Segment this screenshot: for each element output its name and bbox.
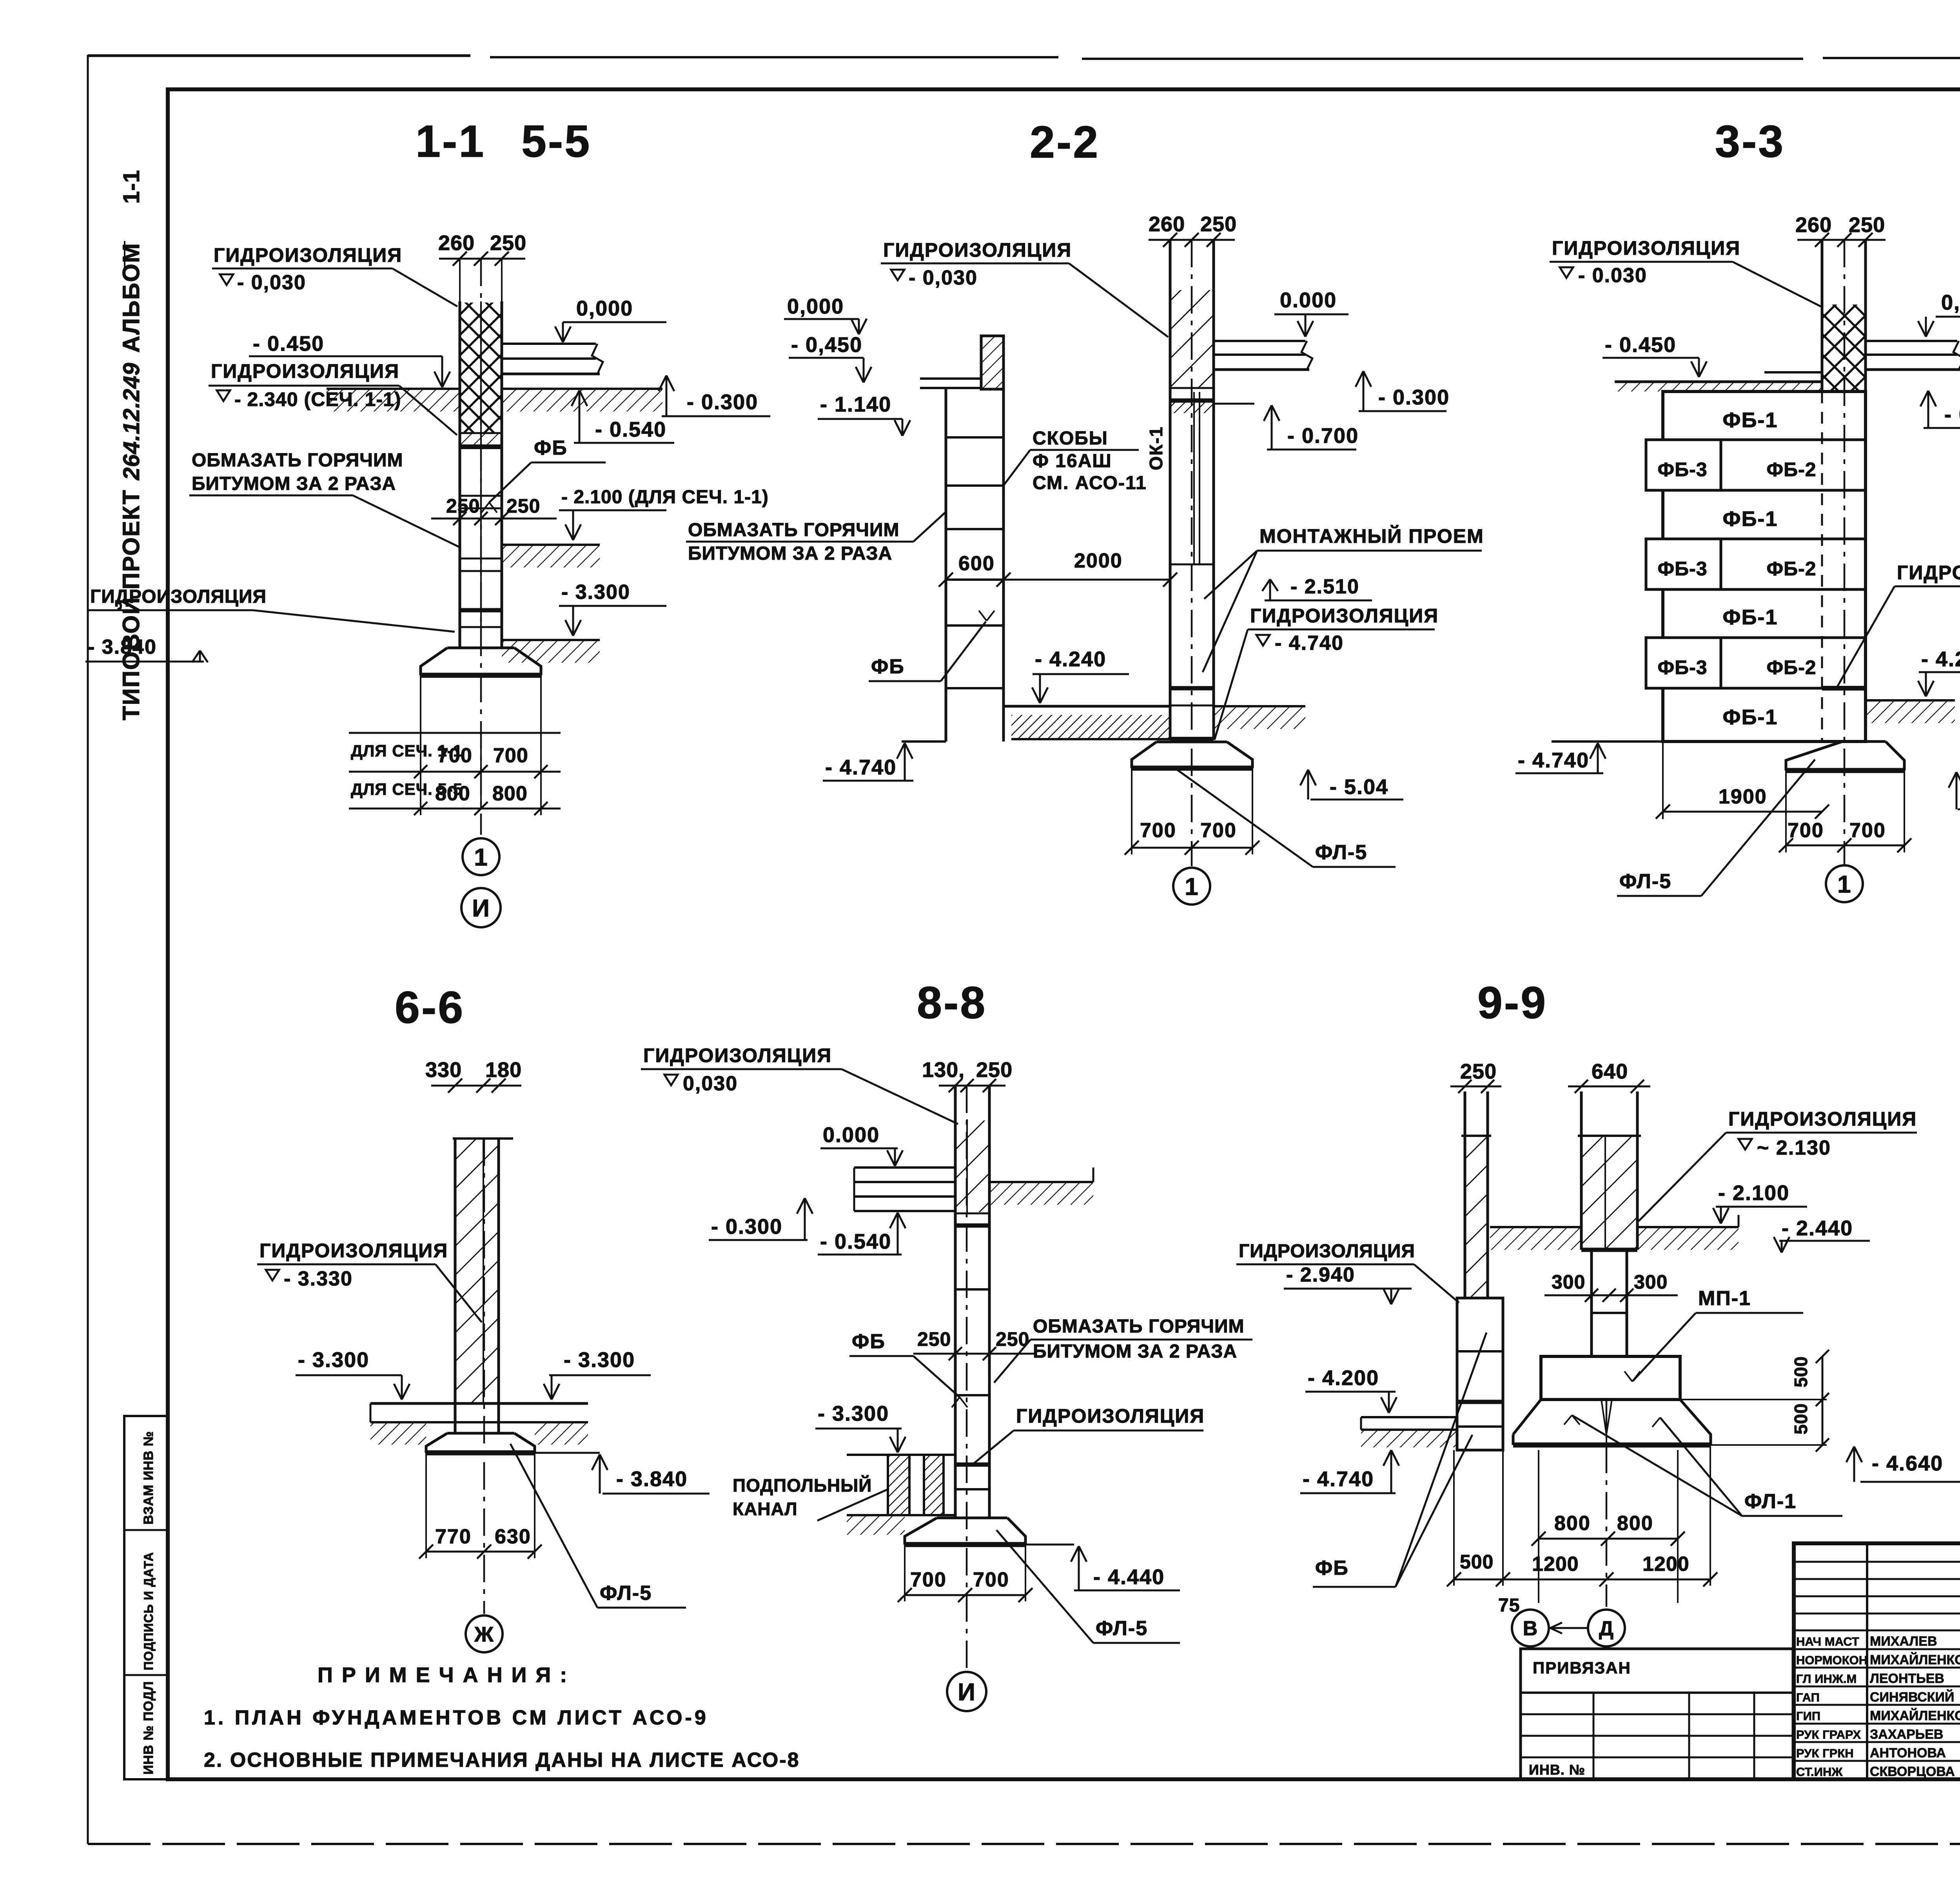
svg-text:ОБМАЗАТЬ ГОРЯЧИМ: ОБМАЗАТЬ ГОРЯЧИМ <box>688 520 899 540</box>
svg-text:ГИДРОИЗОЛЯЦИЯ: ГИДРОИЗОЛЯЦИЯ <box>214 244 402 266</box>
svg-text:- 0.300: - 0.300 <box>1378 386 1450 409</box>
svg-text:700: 700 <box>973 1568 1009 1591</box>
svg-text:ГИДРОИЗОЛЯЦИЯ: ГИДРОИЗОЛЯЦИЯ <box>1728 1108 1917 1130</box>
svg-text:- 4.200: - 4.200 <box>1921 647 1960 671</box>
svg-text:ФБ: ФБ <box>534 437 568 459</box>
svg-text:1: 1 <box>474 844 488 871</box>
axis circle И S1 <box>461 888 501 927</box>
svg-text:3-3: 3-3 <box>1715 116 1785 167</box>
svg-text:ФБ-3: ФБ-3 <box>1657 656 1707 678</box>
svg-text:260: 260 <box>1795 213 1832 237</box>
footing FL-5 S3 <box>1842 740 1886 743</box>
svg-text:- 3.840: - 3.840 <box>616 1467 688 1491</box>
svg-text:- 2.510: - 2.510 <box>1290 575 1359 598</box>
svg-text:75: 75 <box>1498 1595 1520 1616</box>
left block column S9 <box>1457 1298 1503 1450</box>
floor slab right S1 <box>502 343 596 345</box>
axis circle И S8 <box>947 1672 986 1711</box>
svg-text:- 0,030: - 0,030 <box>237 271 306 294</box>
footing FL-5 S8 <box>937 1517 1007 1519</box>
svg-text:8-8: 8-8 <box>917 978 987 1028</box>
footing FL-5 S2 <box>1170 737 1214 742</box>
svg-text:- 4.640: - 4.640 <box>1872 1452 1943 1475</box>
wall joints S1 <box>460 432 502 434</box>
svg-text:П Р И М Е Ч А Н И Я :: П Р И М Е Ч А Н И Я : <box>318 1663 568 1687</box>
svg-text:АЛЬБОМ: АЛЬБОМ <box>118 243 144 353</box>
svg-text:ЗАХАРЬЕВ: ЗАХАРЬЕВ <box>1870 1727 1943 1742</box>
svg-text:2. ОСНОВНЫЕ ПРИМЕЧАНИЯ ДАНЫ НА: 2. ОСНОВНЫЕ ПРИМЕЧАНИЯ ДАНЫ НА ЛИСТЕ АСО… <box>204 1749 800 1771</box>
svg-text:ФБ-2: ФБ-2 <box>1766 459 1816 480</box>
neck S9 <box>1590 1250 1593 1356</box>
svg-text:250: 250 <box>1460 1060 1497 1083</box>
svg-text:Д: Д <box>1599 1617 1614 1640</box>
basement wall cap S2 <box>981 336 1004 389</box>
svg-text:ФЛ-5: ФЛ-5 <box>1619 870 1671 893</box>
basement wall joints S2 <box>946 436 1004 439</box>
svg-text:250: 250 <box>1849 213 1885 237</box>
svg-text:- 0,030: - 0,030 <box>909 267 978 289</box>
svg-text:- 4.740: - 4.740 <box>825 756 897 779</box>
svg-text:800: 800 <box>435 782 470 805</box>
dim table S1 <box>349 732 561 734</box>
svg-text:700: 700 <box>493 744 528 767</box>
svg-text:- 4.740: - 4.740 <box>1518 749 1589 772</box>
svg-text:ГИДРОИЗОЛЯЦИЯ: ГИДРОИЗОЛЯЦИЯ <box>1239 1241 1415 1262</box>
thick sill right column S9 <box>1581 1248 1637 1252</box>
svg-text:НАЧ МАСТ: НАЧ МАСТ <box>1796 1635 1859 1648</box>
svg-text:ФЛ-1: ФЛ-1 <box>1744 1490 1797 1513</box>
svg-text:600: 600 <box>958 552 995 575</box>
svg-text:ОБМАЗАТЬ ГОРЯЧИМ: ОБМАЗАТЬ ГОРЯЧИМ <box>192 450 403 471</box>
svg-text:ГИДРОИЗОЛЯЦИЯ: ГИДРОИЗОЛЯЦИЯ <box>211 360 399 382</box>
svg-text:0,000: 0,000 <box>1941 291 1960 314</box>
ground right S8 <box>989 1181 1093 1183</box>
ground low-right S1 <box>502 639 600 641</box>
svg-text:630: 630 <box>495 1525 531 1548</box>
svg-text:ГИП: ГИП <box>1796 1709 1820 1723</box>
svg-text:ФБ-1: ФБ-1 <box>1723 408 1778 432</box>
svg-text:ГИДРОИЗОЛЯЦИЯ: ГИДРОИЗОЛЯЦИЯ <box>1016 1405 1205 1427</box>
floor slab S3 <box>1866 340 1957 342</box>
svg-text:- 0,540: - 0,540 <box>1944 403 1960 426</box>
svg-text:В: В <box>1523 1617 1538 1640</box>
pedestal MP-1 S9 <box>1541 1356 1680 1400</box>
svg-text:ФБ-2: ФБ-2 <box>1766 558 1816 580</box>
svg-text:МИХАЙЛЕНКО: МИХАЙЛЕНКО <box>1870 1652 1960 1668</box>
svg-text:0,030: 0,030 <box>683 1072 738 1095</box>
svg-text:ФЛ-5: ФЛ-5 <box>1096 1617 1148 1640</box>
svg-text:ФБ: ФБ <box>852 1330 886 1353</box>
names table rows (top empty) <box>1794 1561 1960 1563</box>
svg-text:- 0.540: - 0.540 <box>820 1230 891 1253</box>
axis line S1 <box>480 259 482 835</box>
basement floor S2 <box>1004 705 1170 708</box>
svg-text:ЛЕОНТЬЕВ: ЛЕОНТЬЕВ <box>1870 1671 1944 1686</box>
arrow between В and Д <box>1552 1627 1588 1629</box>
svg-text:ИНВ. №: ИНВ. № <box>1529 1762 1585 1778</box>
floor slab left S8 <box>854 1166 955 1169</box>
svg-text:250: 250 <box>976 1058 1013 1082</box>
svg-text:- 4.440: - 4.440 <box>1093 1565 1165 1589</box>
svg-text:- 3.300: - 3.300 <box>561 581 630 604</box>
svg-text:250: 250 <box>1200 212 1237 236</box>
svg-text:БИТУМОМ ЗА 2 РАЗА: БИТУМОМ ЗА 2 РАЗА <box>688 543 892 564</box>
svg-text:1-1: 1-1 <box>416 116 485 167</box>
svg-text:- 2.440: - 2.440 <box>1782 1217 1853 1240</box>
svg-text:260: 260 <box>438 231 475 255</box>
svg-text:130,: 130, <box>922 1058 965 1082</box>
svg-text:СКОБЫ: СКОБЫ <box>1033 428 1108 449</box>
svg-text:- 3.300: - 3.300 <box>564 1348 635 1372</box>
svg-text:- 4.740: - 4.740 <box>1275 632 1344 654</box>
brick hatch S2 <box>1171 290 1212 388</box>
axis circle 1 S2 <box>1173 868 1210 905</box>
svg-text:- 2.100: - 2.100 <box>1718 1181 1789 1205</box>
svg-text:1. ПЛАН ФУНДАМЕНТОВ СМ ЛИСТ: 1. ПЛАН ФУНДАМЕНТОВ СМ ЛИСТ АСО-9 <box>204 1706 709 1729</box>
ground left S1 <box>327 388 460 390</box>
ground right S3 <box>1866 699 1955 702</box>
svg-text:- 2.340 (СЕЧ. 1-1): - 2.340 (СЕЧ. 1-1) <box>234 388 401 410</box>
svg-text:СТ.ИНЖ: СТ.ИНЖ <box>1796 1765 1843 1779</box>
svg-text:ПРИВЯЗАН: ПРИВЯЗАН <box>1533 1659 1631 1677</box>
svg-text:СКВОРЦОВА: СКВОРЦОВА <box>1870 1764 1955 1779</box>
svg-text:ОК-1: ОК-1 <box>1146 426 1166 470</box>
svg-text:И: И <box>958 1679 976 1706</box>
svg-text:250: 250 <box>917 1328 951 1350</box>
svg-text:1900: 1900 <box>1719 785 1767 808</box>
left thin column S9 <box>1464 1091 1466 1298</box>
waterproof joint S3 <box>1822 686 1866 691</box>
svg-text:- 3.300: - 3.300 <box>818 1402 889 1425</box>
svg-text:2-2: 2-2 <box>1030 117 1100 167</box>
svg-text:ФЛ-5: ФЛ-5 <box>600 1582 652 1604</box>
footing FL-5 S1 <box>447 647 514 649</box>
svg-text:ИНВ № ПОДЛ: ИНВ № ПОДЛ <box>141 1681 156 1775</box>
svg-text:МОНТАЖНЫЙ ПРОЕМ: МОНТАЖНЫЙ ПРОЕМ <box>1259 525 1484 547</box>
svg-text:МП-1: МП-1 <box>1698 1287 1751 1310</box>
svg-text:ГИДРОИЗОЛЯЦИЯ: ГИДРОИЗОЛЯЦИЯ <box>90 586 267 607</box>
svg-text:- 3.300: - 3.300 <box>298 1348 369 1372</box>
svg-text:ФБ-3: ФБ-3 <box>1657 459 1707 480</box>
svg-text:Ж: Ж <box>474 1623 494 1646</box>
svg-text:ГАП: ГАП <box>1796 1691 1820 1704</box>
wall column S1 <box>459 301 461 643</box>
svg-text:264.12.249: 264.12.249 <box>119 363 144 480</box>
axis circle Ж S6 <box>466 1615 503 1652</box>
svg-text:ФБ-1: ФБ-1 <box>1723 507 1778 531</box>
axis circle 1 S3 <box>1826 865 1863 902</box>
names table columns <box>1866 1543 1868 1779</box>
svg-text:- 0.700: - 0.700 <box>1287 424 1359 448</box>
margin strip table <box>124 1416 168 1779</box>
svg-text:ОБМАЗАТЬ ГОРЯЧИМ: ОБМАЗАТЬ ГОРЯЧИМ <box>1033 1316 1244 1337</box>
svg-text:МИХАЙЛЕНКО: МИХАЙЛЕНКО <box>1870 1708 1960 1723</box>
ground mid S9 <box>1490 1226 1581 1228</box>
svg-text:БИТУМОМ ЗА 2 РАЗА: БИТУМОМ ЗА 2 РАЗА <box>192 473 396 494</box>
svg-text:РУК ГРКН: РУК ГРКН <box>1796 1746 1854 1760</box>
axis line S9 <box>1606 1400 1608 1607</box>
svg-text:- 1.140: - 1.140 <box>820 393 891 416</box>
svg-text:ГИДРОИЗОЛЯЦИЯ: ГИДРОИЗОЛЯЦИЯ <box>883 239 1072 261</box>
right column S9 <box>1580 1091 1583 1250</box>
underground channel S8 <box>847 1454 955 1456</box>
svg-text:- 4.200: - 4.200 <box>1308 1366 1379 1390</box>
window lines OK-1 S2 <box>1193 392 1195 564</box>
axis line S2 <box>1191 240 1193 866</box>
svg-text:770: 770 <box>435 1525 472 1548</box>
outer border bottom (dashed) <box>88 1843 1960 1845</box>
svg-text:~ 2.130: ~ 2.130 <box>1757 1137 1831 1159</box>
crack V S9 <box>1601 1400 1606 1434</box>
svg-text:0,000: 0,000 <box>787 295 844 318</box>
svg-text:КАНАЛ: КАНАЛ <box>733 1499 798 1519</box>
svg-text:ПОДПОЛЬНЫЙ: ПОДПОЛЬНЫЙ <box>733 1475 872 1496</box>
svg-text:700: 700 <box>910 1568 947 1591</box>
outer border left <box>87 55 89 1844</box>
svg-text:МИХАЛЕВ: МИХАЛЕВ <box>1870 1634 1937 1649</box>
privyazan table <box>1521 1649 1793 1779</box>
axis circle В S9 <box>1512 1610 1549 1646</box>
block rows S3 <box>1663 439 1866 441</box>
block wall S3 <box>1663 392 1866 742</box>
svg-text:800: 800 <box>492 782 528 805</box>
wall joints S8 <box>955 1213 989 1215</box>
ground right S9 <box>1637 1226 1739 1228</box>
svg-text:ФБ: ФБ <box>1315 1557 1349 1579</box>
svg-text:250: 250 <box>446 495 480 517</box>
svg-text:- 0.300: - 0.300 <box>711 1215 782 1238</box>
svg-text:СМ. АСО-11: СМ. АСО-11 <box>1033 473 1147 493</box>
svg-text:- 0.450: - 0.450 <box>1605 333 1676 357</box>
svg-text:Ф 16АШ: Ф 16АШ <box>1033 451 1112 471</box>
svg-text:РУК ГРАРХ: РУК ГРАРХ <box>1796 1728 1861 1742</box>
svg-text:НОРМОКОН: НОРМОКОН <box>1796 1653 1867 1667</box>
svg-text:700: 700 <box>1200 819 1237 842</box>
basement wall S2 <box>945 389 947 742</box>
svg-text:300: 300 <box>1634 1271 1668 1293</box>
svg-text:700: 700 <box>437 744 472 767</box>
svg-text:250: 250 <box>506 495 540 517</box>
floor hatch S6 <box>370 1422 426 1445</box>
svg-text:- 0.540: - 0.540 <box>595 418 666 441</box>
svg-text:ГЛ ИНЖ.М: ГЛ ИНЖ.М <box>1796 1672 1857 1686</box>
footing FL-5 S6 <box>447 1432 514 1435</box>
title block outer <box>1794 1543 1960 1779</box>
svg-text:1-1: 1-1 <box>119 170 144 204</box>
svg-text:0,000: 0,000 <box>576 297 633 320</box>
svg-text:9-9: 9-9 <box>1477 978 1547 1028</box>
svg-text:700: 700 <box>1849 819 1886 842</box>
svg-text:330: 330 <box>425 1058 462 1082</box>
svg-text:- 3.330: - 3.330 <box>284 1267 353 1290</box>
protruding blocks S3 <box>1646 440 1721 490</box>
floor slab right S2 <box>1214 340 1305 342</box>
svg-text:800: 800 <box>1617 1512 1653 1535</box>
svg-text:500: 500 <box>1791 1403 1811 1434</box>
svg-text:800: 800 <box>1554 1512 1591 1535</box>
svg-text:ФЛ-5: ФЛ-5 <box>1315 841 1367 864</box>
svg-text:- 0.450: - 0.450 <box>253 332 324 355</box>
svg-text:- 0.030: - 0.030 <box>1578 264 1647 287</box>
svg-text:ГИДРОИЗОЛЯЦИЯ: ГИДРОИЗОЛЯЦИЯ <box>1250 605 1439 627</box>
svg-text:500: 500 <box>1791 1356 1811 1387</box>
hidden wall line S3 <box>1821 392 1823 742</box>
floor lines S6 <box>370 1402 588 1405</box>
svg-text:ФБ: ФБ <box>871 655 905 678</box>
svg-text:1200: 1200 <box>1532 1553 1579 1575</box>
svg-text:5-5: 5-5 <box>521 116 591 167</box>
svg-text:АНТОНОВА: АНТОНОВА <box>1870 1746 1946 1760</box>
svg-text:0.000: 0.000 <box>1280 288 1337 312</box>
svg-text:700: 700 <box>1140 819 1176 842</box>
svg-text:ФБ-1: ФБ-1 <box>1723 705 1778 729</box>
upper wall S3 <box>1821 240 1824 392</box>
svg-text:ФБ-1: ФБ-1 <box>1723 606 1778 629</box>
svg-text:ФБ-2: ФБ-2 <box>1766 656 1816 678</box>
svg-text:ГИДРОИЗОЛЯЦИЯ: ГИДРОИЗОЛЯЦИЯ <box>1552 237 1740 259</box>
svg-text:1200: 1200 <box>1642 1553 1690 1575</box>
svg-text:- 2.940: - 2.940 <box>1286 1264 1355 1286</box>
svg-text:1: 1 <box>1837 871 1851 898</box>
svg-text:СИНЯВСКИЙ: СИНЯВСКИЙ <box>1870 1690 1954 1705</box>
wall column S8 <box>954 1086 957 1518</box>
wall joints S2 <box>1170 387 1214 389</box>
axis line S8 <box>966 1086 968 1670</box>
ground right S1 <box>502 388 662 390</box>
left floor S9 <box>1361 1416 1457 1418</box>
svg-text:ПОДПИСЬ И ДАТА: ПОДПИСЬ И ДАТА <box>142 1552 156 1670</box>
svg-text:180: 180 <box>485 1058 522 1082</box>
svg-text:640: 640 <box>1592 1060 1628 1083</box>
axis circle 1 S1 <box>463 838 499 875</box>
svg-text:260: 260 <box>1149 212 1185 236</box>
svg-text:БИТУМОМ ЗА 2 РАЗА: БИТУМОМ ЗА 2 РАЗА <box>1033 1341 1237 1362</box>
ground left S3 <box>1615 381 1822 383</box>
names table rows <box>1794 1630 1960 1632</box>
svg-text:- 4.240: - 4.240 <box>1035 647 1106 671</box>
svg-text:ФБ-3: ФБ-3 <box>1657 558 1707 580</box>
svg-text:1: 1 <box>1185 873 1198 900</box>
main wall column S2 <box>1169 240 1172 739</box>
svg-text:- 3.840: - 3.840 <box>88 636 157 658</box>
axis line S3 <box>1844 240 1846 865</box>
svg-text:И: И <box>472 895 490 922</box>
footing FL-1 S9 <box>1513 1400 1711 1445</box>
svg-text:ГИДРОИЗОЛЯЦИЯ: ГИДРОИЗОЛЯЦИЯ <box>260 1240 448 1262</box>
svg-text:- 0.300: - 0.300 <box>687 390 758 414</box>
svg-text:- 0,450: - 0,450 <box>791 333 862 357</box>
svg-text:ВЗАМ ИНВ №: ВЗАМ ИНВ № <box>141 1431 156 1525</box>
ground mid-right S1 <box>502 544 600 546</box>
svg-text:300: 300 <box>1552 1271 1585 1293</box>
svg-text:0.000: 0.000 <box>823 1123 880 1147</box>
ground right of footing S2 <box>1214 705 1305 707</box>
svg-text:2000: 2000 <box>1074 549 1123 572</box>
brick hatch S1 <box>461 303 501 433</box>
svg-text:- 5.04: - 5.04 <box>1330 775 1388 799</box>
svg-text:500: 500 <box>1460 1551 1494 1573</box>
svg-text:ГИДРОИЗОЛЯЦИЯ: ГИДРОИЗОЛЯЦИЯ <box>1897 562 1960 584</box>
wall column S6 <box>454 1139 457 1433</box>
axis line S6 <box>483 1139 485 1614</box>
axis circle Д S9 <box>1588 1610 1625 1646</box>
svg-text:6-6: 6-6 <box>395 983 465 1033</box>
svg-text:- 4.740: - 4.740 <box>1303 1467 1374 1491</box>
svg-text:- 2.100 (ДЛЯ СЕЧ. 1-1): - 2.100 (ДЛЯ СЕЧ. 1-1) <box>561 487 769 508</box>
svg-text:ГИДРОИЗОЛЯЦИЯ: ГИДРОИЗОЛЯЦИЯ <box>643 1044 832 1066</box>
outer border top (broken) <box>88 54 470 57</box>
